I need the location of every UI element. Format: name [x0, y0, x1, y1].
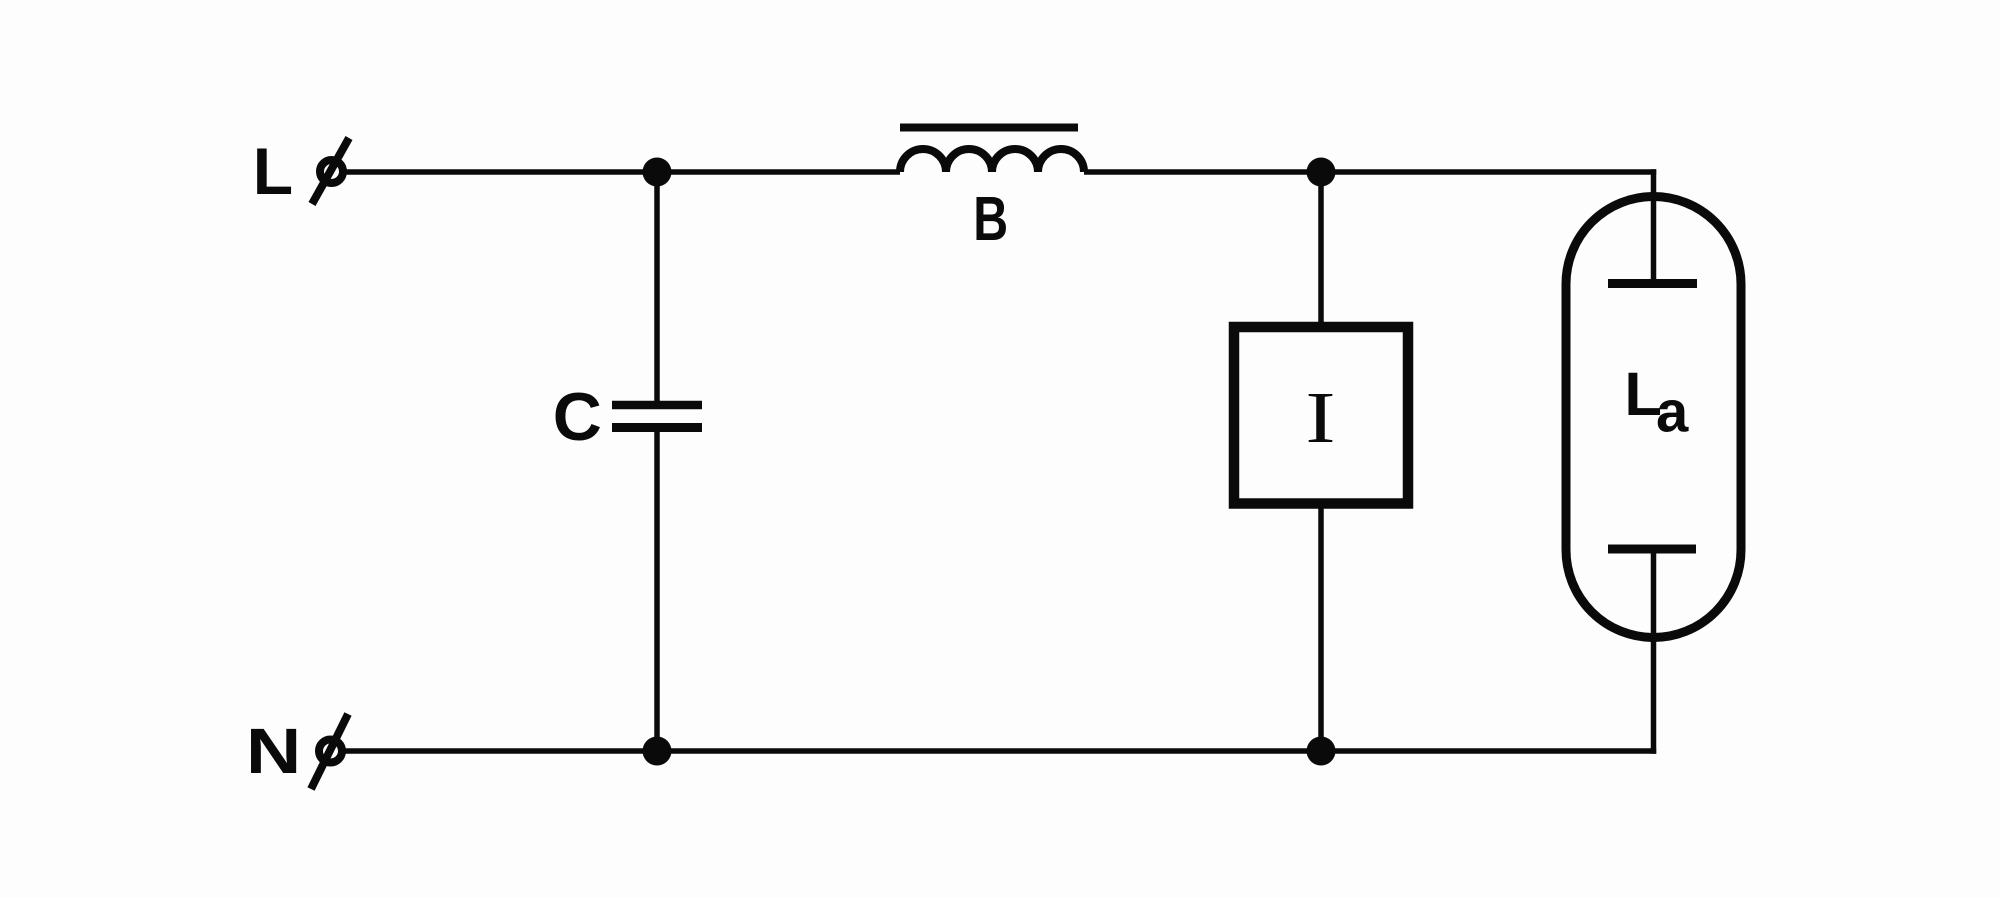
inductor B: core bar: [900, 124, 1078, 132]
node: junction bottom-left (capacitor): [643, 737, 672, 766]
terminal L (circle with slash): [312, 138, 349, 204]
terminal N (circle with slash): [311, 714, 348, 789]
wire: ignitor top lead: [1318, 172, 1324, 322]
wire: capacitor bottom lead: [654, 432, 660, 751]
bottom wire: N terminal to lamp branch corner: [344, 748, 1656, 754]
lamp La: bottom electrode bar: [1608, 545, 1696, 554]
node: junction top-left (capacitor tap): [643, 158, 672, 187]
wire: ignitor bottom lead: [1318, 509, 1324, 752]
svg-text:a: a: [1656, 380, 1689, 445]
svg-text:B: B: [973, 184, 1008, 253]
wire: lamp bottom electrode lead down to bottom wire: [1651, 549, 1657, 754]
svg-text:N: N: [246, 715, 301, 787]
capacitor C: top plate: [612, 401, 702, 410]
capacitor C: bottom plate: [612, 423, 702, 432]
svg-text:C: C: [553, 379, 602, 455]
lamp La: top electrode bar: [1608, 279, 1697, 288]
svg-text:L: L: [253, 134, 293, 208]
svg-text:I: I: [1305, 377, 1335, 458]
node: junction top-right (ignitor tap): [1307, 158, 1336, 187]
node: junction bottom-right (ignitor): [1307, 737, 1336, 766]
wire: capacitor top lead: [654, 172, 660, 401]
lamp La: capsule envelope: [1566, 197, 1741, 638]
inductor B: coil (4 semicircular humps): [900, 149, 1084, 172]
wire: L terminal to coil start (top wire left segment): [345, 169, 900, 175]
wire: coil end to top-right corner of lamp branch: [1084, 169, 1656, 175]
ignitor I: box: [1234, 327, 1408, 504]
wire: top corner down to lamp top electrode: [1651, 169, 1657, 285]
